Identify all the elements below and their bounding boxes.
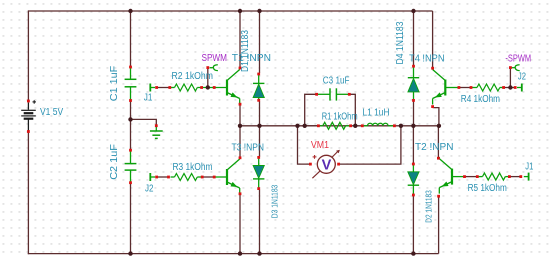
svg-text:J1: J1 (525, 162, 533, 173)
svg-text:T2 !NPN: T2 !NPN (415, 142, 454, 153)
svg-text:D3 1N1183: D3 1N1183 (270, 184, 280, 218)
svg-text:C2 1uF: C2 1uF (109, 144, 120, 180)
svg-text:VM1: VM1 (311, 140, 329, 151)
svg-text:R3 1kOhm: R3 1kOhm (173, 162, 213, 173)
svg-text:V: V (322, 158, 332, 174)
svg-text:D4 1N1183: D4 1N1183 (395, 21, 406, 64)
svg-text:T3 !NPN: T3 !NPN (232, 142, 265, 153)
svg-text:SPWM: SPWM (202, 53, 228, 64)
svg-text:R2 1kOhm: R2 1kOhm (172, 71, 214, 82)
svg-text:T1 !NPN: T1 !NPN (232, 53, 271, 64)
svg-text:J2: J2 (145, 183, 154, 194)
svg-text:J2: J2 (518, 72, 526, 83)
svg-text:L1 1uH: L1 1uH (363, 108, 390, 119)
svg-text:R4 1kOhm: R4 1kOhm (461, 94, 500, 105)
svg-text:C1 1uF: C1 1uF (109, 66, 120, 102)
svg-text:R1 1kOhm: R1 1kOhm (322, 111, 358, 122)
svg-text:J1: J1 (144, 92, 153, 103)
svg-text:-SPWM: -SPWM (505, 53, 531, 64)
svg-text:C3 1uF: C3 1uF (323, 75, 350, 86)
svg-text:D1 1N1183: D1 1N1183 (240, 30, 251, 72)
svg-text:V1 5V: V1 5V (40, 107, 64, 118)
svg-text:T4 !NPN: T4 !NPN (409, 53, 444, 64)
svg-text:D2 1N1183: D2 1N1183 (423, 190, 433, 223)
svg-text:R5 1kOhm: R5 1kOhm (468, 183, 507, 194)
